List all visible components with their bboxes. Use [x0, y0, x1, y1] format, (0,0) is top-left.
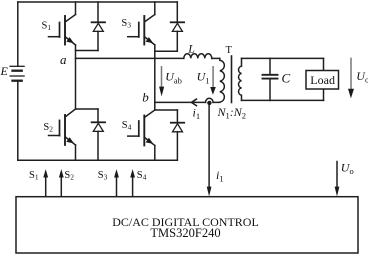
diode D4 — [155, 110, 184, 160]
battery E — [10, 66, 24, 80]
svg-text:L: L — [187, 41, 195, 55]
wire: hop to primary bottom — [213, 101, 220, 103]
transistor S1 (IGBT) — [49, 2, 76, 45]
svg-text:S2: S2 — [64, 170, 74, 182]
capacitor C — [263, 58, 278, 100]
gate drive arrow S1 — [43, 169, 48, 197]
svg-text:S4: S4 — [137, 170, 147, 182]
svg-text:i1: i1 — [216, 168, 224, 184]
svg-text:Uo: Uo — [341, 161, 354, 177]
wire hop on node b wire — [206, 98, 214, 102]
i1 feedback line — [207, 105, 212, 196]
i1 current arrow on wire — [192, 99, 197, 106]
svg-text:Uab: Uab — [165, 70, 182, 86]
svg-text:U1: U1 — [197, 70, 210, 86]
svg-text:b: b — [142, 90, 149, 105]
gate drive arrow S4 — [130, 169, 135, 197]
svg-text:T: T — [226, 45, 233, 56]
diode D3 — [155, 2, 184, 51]
diode D2 — [76, 109, 106, 160]
svg-text:Uo: Uo — [356, 69, 368, 85]
svg-text:Load: Load — [310, 73, 335, 87]
wire: node a output wire — [76, 57, 184, 59]
transformer T secondary winding — [239, 58, 242, 100]
svg-text:N1:N2: N1:N2 — [217, 105, 247, 121]
Uab arrow — [159, 67, 164, 96]
wire: inductor to primary — [212, 57, 220, 59]
svg-text:S4: S4 — [122, 120, 132, 132]
load box — [306, 71, 339, 90]
svg-text:E: E — [0, 64, 9, 78]
svg-text:i1: i1 — [193, 106, 201, 122]
control box — [16, 197, 358, 253]
wire: output loop right side bottom — [323, 89, 325, 100]
transistor S2 (IGBT) — [49, 109, 76, 160]
wire: node b output wire — [155, 101, 206, 103]
wire: bottom rail — [18, 159, 178, 161]
svg-text:TMS320F240: TMS320F240 — [150, 226, 220, 240]
svg-text:S2: S2 — [43, 122, 53, 134]
svg-text:S3: S3 — [98, 170, 108, 182]
wire: output loop bottom — [242, 99, 324, 101]
transistor S4 (IGBT) — [128, 110, 155, 160]
wire: output loop top — [242, 57, 324, 59]
U1 arrow — [210, 67, 216, 95]
wire: battery bottom lead — [17, 81, 19, 161]
wire: battery top lead — [17, 2, 19, 66]
transformer core — [231, 56, 233, 103]
svg-text:S1: S1 — [42, 21, 52, 32]
transistor S3 (IGBT) — [128, 2, 155, 45]
svg-text:S3: S3 — [121, 18, 131, 30]
wire: output loop right side top — [323, 58, 325, 70]
svg-text:a: a — [60, 52, 67, 67]
wire: right leg vertical through node b — [154, 45, 156, 110]
junction dot (current tap i1) — [207, 101, 211, 105]
Uo output arrow — [348, 58, 354, 98]
diode D1 — [76, 2, 106, 51]
gate drive arrow S2 — [59, 169, 64, 197]
transformer T primary winding — [220, 58, 225, 102]
Uo feedback line — [335, 162, 340, 197]
wire: top rail — [18, 1, 178, 3]
inductor L — [184, 54, 212, 59]
svg-text:S1: S1 — [29, 170, 39, 182]
svg-text:C: C — [282, 71, 291, 86]
gate drive arrow S3 — [114, 169, 119, 197]
wire: left leg vertical through node a — [75, 45, 77, 109]
